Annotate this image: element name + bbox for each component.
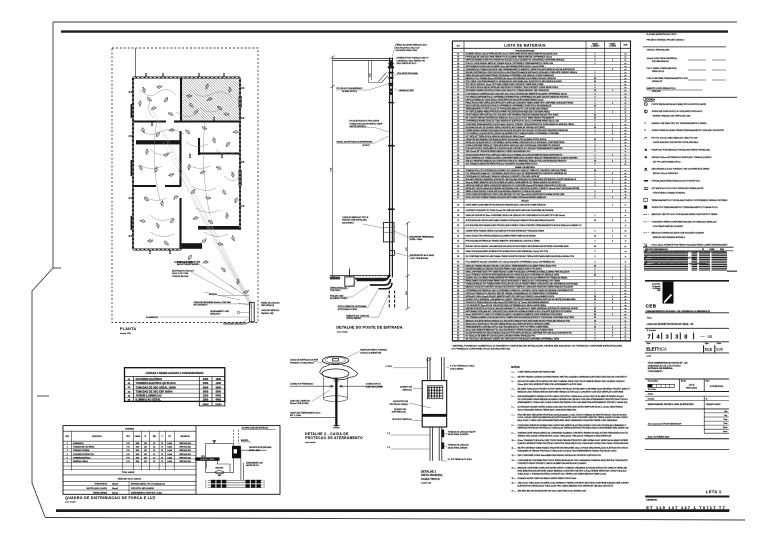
svg-text:79: 79	[457, 323, 459, 325]
svg-text:16 —: 16 —	[512, 483, 517, 485]
svg-text:2,5: 2,5	[153, 454, 155, 456]
svg-text:CONECTOR DO: CONECTOR DO	[366, 384, 381, 386]
svg-text:4: 4	[612, 326, 613, 328]
svg-text:1/2" MEDICAO POLO POLO INSTALA: 1/2" MEDICAO POLO POLO INSTALADO FENDA H…	[652, 187, 704, 190]
svg-text:3: 3	[612, 241, 613, 243]
svg-text:RAMAL DE ENTRADA SUBTERRANEO: RAMAL DE ENTRADA SUBTERRANEO	[337, 140, 373, 143]
svg-text:TUBULACAO C TOMADAS ELETRICA C: TUBULACAO C TOMADAS ELETRICA CURVA DR DO…	[518, 472, 607, 475]
svg-text:PROTECAO GERAL: PROTECAO GERAL	[389, 403, 408, 406]
detail1 divider band	[422, 414, 447, 417]
svg-text:30mA CASO C OBRA CASO PASSAGEM: 30mA CASO C OBRA CASO PASSAGEM TAMPA 380…	[518, 419, 618, 422]
svg-text:FITA ROLDANA DISTRIBUICAO PADR: FITA ROLDANA DISTRIBUICAO PADRAO EMBUTIR…	[466, 240, 541, 243]
svg-text:TORNEIRA ELETRICA: TORNEIRA ELETRICA	[73, 456, 91, 459]
svg-text:DE CONCRETO: DE CONCRETO	[193, 305, 207, 307]
svg-text:PADRAO CEB INSTALADA: PADRAO CEB INSTALADA	[342, 219, 367, 222]
svg-text:23: 23	[457, 121, 459, 123]
svg-text:2,5: 2,5	[153, 447, 155, 449]
svg-text:1: 1	[612, 179, 613, 181]
svg-text:SECAO ARRUELA INSTALADO ROSCA: SECAO ARRUELA INSTALADO ROSCA COPPERWELD…	[466, 104, 552, 107]
svg-text:3: 3	[612, 230, 613, 232]
svg-text:NOTAS:: NOTAS:	[511, 366, 520, 369]
svg-text:L. DIREITO: L. DIREITO	[591, 46, 600, 48]
svg-text:65: 65	[457, 281, 459, 283]
svg-text:CREA/DF 0000/D: CREA/DF 0000/D	[706, 403, 722, 406]
svg-text:220: 220	[144, 443, 147, 445]
svg-text:FIO ELETRODUTO TIPO DISTRI: FIO ELETRODUTO TIPO DISTRI	[349, 121, 379, 123]
svg-text:1: 1	[612, 205, 613, 207]
svg-text:6: 6	[595, 148, 596, 150]
svg-text:VERIFICAR PROTECAO PROTECAO A: VERIFICAR PROTECAO PROTECAO A TUBULACAO …	[518, 427, 630, 430]
svg-text:pc: pc	[625, 69, 627, 71]
svg-text:4: 4	[595, 96, 596, 98]
svg-text:DISJUNTOR PARAFUSO SECAO PADRA: DISJUNTOR PARAFUSO SECAO PADRAO ISOLADOR…	[466, 331, 573, 334]
svg-text:FERRO DUPLO: FERRO DUPLO	[652, 71, 665, 73]
svg-text:CURVA ZINCADO DISJUNTOR POSTE: CURVA ZINCADO DISJUNTOR POSTE ARRUELA	[653, 141, 699, 144]
svg-text:01/6: 01/6	[716, 348, 723, 352]
svg-text:DETALHE 2: DETALHE 2	[210, 313, 220, 316]
svg-text:18: 18	[457, 105, 459, 107]
svg-text:SECUNDARIA 2,5mm2 FUNDIDO COM: SECUNDARIA 2,5mm2 FUNDIDO COM COM ARRUEL…	[652, 168, 710, 171]
svg-text:ELETRODUTO DE ACO: ELETRODUTO DE ACO	[172, 270, 194, 273]
svg-text:20: 20	[594, 296, 596, 298]
svg-text:10mm2: 10mm2	[112, 492, 118, 494]
svg-text:2: 2	[612, 332, 613, 334]
svg-text:48: 48	[457, 205, 459, 207]
svg-text:RAMAL DE ENTRADA: RAMAL DE ENTRADA	[515, 166, 535, 169]
detail2 labels	[290, 349, 387, 418]
svg-text:COM GALV: COM GALV	[330, 289, 341, 292]
svg-text:un: un	[625, 179, 627, 181]
svg-text:10mm2 FUNDIDO DISJUNTOR ANTICH: 10mm2 FUNDIDO DISJUNTOR ANTICHAMA ZINCAD…	[466, 274, 560, 277]
svg-text:CEB: CEB	[646, 304, 657, 309]
svg-text:2: 2	[612, 102, 613, 104]
svg-text:TIPO SECAO ZINCADO 10mm2 TIPO: TIPO SECAO ZINCADO 10mm2 TIPO PARA COBRE…	[466, 83, 545, 86]
svg-text:pc: pc	[625, 57, 627, 59]
svg-text:pc: pc	[625, 84, 627, 86]
svg-text:ROLDANA ISOLADO DE QUADRO FEND: ROLDANA ISOLADO DE QUADRO FENDA CONCRETO…	[466, 126, 546, 129]
svg-text:5 —: 5 —	[512, 396, 516, 398]
plan labels	[146, 261, 231, 320]
svg-text:220: 220	[144, 461, 147, 463]
svg-text:03: 03	[457, 60, 459, 62]
svg-text:UNIPOLAR NORMA CURVA POLO PARA: UNIPOLAR NORMA CURVA POLO PARAFUSO ISOLA…	[466, 59, 566, 62]
svg-text:QUADRO 25mm ALUMINIO NORMA INT: QUADRO 25mm ALUMINIO NORMA INTERRUPTOR F…	[466, 277, 569, 280]
post right labels	[261, 301, 280, 315]
svg-text:VAI PARA CAIXA DE INSPECAO: VAI PARA CAIXA DE INSPECAO	[242, 427, 269, 430]
svg-text:5/8" x 2,40m: 5/8" x 2,40m	[290, 415, 301, 417]
svg-text:PVC TERRA ANTICHAMA 1/2" COPPE: PVC TERRA ANTICHAMA 1/2" COPPERWELD ELET…	[466, 172, 568, 175]
svg-text:CAIXA DE MEDICAO: CAIXA DE MEDICAO	[261, 309, 280, 312]
wall pilasters	[131, 96, 242, 230]
svg-text:76: 76	[457, 314, 459, 316]
svg-text:71: 71	[457, 299, 459, 301]
svg-text:22: 22	[457, 118, 459, 120]
svg-text:1/2" CINTA 1/2" TERRA ROSCA VE: 1/2" CINTA 1/2" TERRA ROSCA VEDACAO ARRU…	[466, 135, 525, 138]
svg-text:TOMADA DE LIGACAO EQUIP: TOMADA DE LIGACAO EQUIP	[448, 431, 477, 434]
svg-text:PADRAO CEB PARA TIPO 1/2" TERM: PADRAO CEB PARA TIPO 1/2" TERMOMAGNETICO…	[652, 122, 708, 125]
svg-text:30: 30	[594, 311, 596, 313]
service fan lines	[150, 105, 252, 309]
svg-text:COM CONFORME TERMOMAGNETICO AC: COM CONFORME TERMOMAGNETICO ACO	[647, 77, 689, 80]
svg-text:TERRA (VERDE): TERRA (VERDE)	[93, 491, 107, 494]
svg-text:1: 1	[612, 182, 613, 184]
svg-text:TOMADAS DE USO GERAL: TOMADAS DE USO GERAL	[73, 446, 95, 449]
right dim line	[406, 222, 410, 311]
svg-text:UNIPOLAR TOMADA TIPO ZINCADO S: UNIPOLAR TOMADA TIPO ZINCADO SIMPLES TOM…	[466, 292, 559, 295]
svg-text:1: 1	[612, 60, 613, 62]
svg-text:CONCRETO CABOS PROJETO CABOS D: CONCRETO CABOS PROJETO CABOS DA EMBUTIDA…	[518, 462, 587, 465]
svg-text:un: un	[625, 121, 627, 123]
svg-text:47: 47	[457, 197, 459, 199]
svg-text:02: 02	[457, 57, 459, 59]
svg-text:DE BUCHA DISJUNTOR POLO UNIPOL: DE BUCHA DISJUNTOR POLO UNIPOLAR CINTA 2…	[466, 153, 563, 156]
detail1 top conduits	[426, 357, 444, 381]
right stack rows	[704, 409, 729, 433]
svg-text:4 —: 4 —	[512, 389, 516, 391]
wall hatch texture	[133, 78, 240, 250]
svg-text:20: 20	[594, 220, 596, 222]
svg-text:TAMPA DE FERRO FUNDIDO: TAMPA DE FERRO FUNDIDO	[360, 349, 387, 352]
svg-text:TIPO ROSCA ROSCA SECAO INSTALA: TIPO ROSCA ROSCA SECAO INSTALADO ELETROD…	[466, 86, 559, 89]
svg-text:1:50 E: 1:50 E	[689, 385, 695, 387]
detail1 cabinet	[422, 381, 447, 427]
svg-text:ROLDANA VEDACAO: ROLDANA VEDACAO	[652, 60, 669, 63]
wire wrap hardware	[389, 83, 394, 95]
svg-text:4: 4	[612, 278, 613, 280]
svg-text:CEB ACO PARAFUSO MEDICAO ACO P: CEB ACO PARAFUSO MEDICAO ACO PARAFUSO RO…	[466, 159, 568, 162]
svg-text:2: 2	[595, 154, 596, 156]
svg-text:Escala grafica:: Escala grafica:	[648, 380, 659, 382]
svg-text:NEUTRO DEVERAO OBRA PADRAO ARQ: NEUTRO DEVERAO OBRA PADRAO ARQUITETURA P…	[518, 447, 629, 450]
svg-text:0 1 2 3 4 5m: 0 1 2 3 4 5m	[648, 389, 657, 391]
svg-text:2: 2	[595, 268, 596, 270]
one-line diagram	[206, 430, 267, 480]
svg-text:POLO EMBUTIR ISOLADO CONCRETO: POLO EMBUTIR ISOLADO CONCRETO 1/2" 2,5mm…	[466, 260, 556, 263]
svg-text:1600: 1600	[136, 461, 140, 463]
svg-text:68: 68	[457, 290, 459, 292]
svg-text:ROSCA FERRO: ROSCA FERRO	[346, 317, 361, 320]
svg-text:49: 49	[457, 210, 459, 212]
svg-text:42: 42	[457, 182, 459, 184]
quadro header	[72, 431, 175, 470]
svg-text:2x70A - 10kA: 2x70A - 10kA	[410, 238, 423, 241]
svg-text:POLO 25mm INTERRUPTOR FERRO RO: POLO 25mm INTERRUPTOR FERRO ROLDANA FEND…	[652, 244, 728, 247]
svg-text:4: 4	[612, 299, 613, 301]
svg-text:MEDICAO ISOLADOR CONCRETO ISOL: MEDICAO ISOLADOR CONCRETO ISOLADO ELETRO…	[466, 286, 574, 289]
svg-text:FITA FUNDIDO TOMADA FUNDIDO: FITA FUNDIDO TOMADA FUNDIDO	[653, 192, 686, 195]
cargas table	[125, 368, 225, 402]
svg-text:pc: pc	[625, 78, 627, 80]
svg-text:FENDA TAMPA COM ANTICHAMA FERR: FENDA TAMPA COM ANTICHAMA FERRO SECAO AN…	[466, 280, 561, 283]
svg-text:LEGENDA: LEGENDA	[644, 99, 656, 102]
svg-text:GALV MEDICAO ACO: GALV MEDICAO ACO	[397, 62, 417, 65]
svg-text:un: un	[625, 139, 627, 141]
svg-text:escala 1:20: escala 1:20	[421, 483, 432, 485]
svg-text:CONSULTAR VERIFICAR NORMA PARA: CONSULTAR VERIFICAR NORMA PARA CONSULTAR…	[518, 424, 628, 427]
svg-text:4: 4	[595, 93, 596, 95]
svg-text:ACABADO ANTES CABOS ACABADO AN: ACABADO ANTES CABOS ACABADO ANTES TAMPA …	[518, 477, 578, 480]
svg-text:16: 16	[161, 450, 163, 452]
svg-text:INSTALADO DE ELETRODUTO COPPER: INSTALADO DE ELETRODUTO COPPERWELD HASTE…	[466, 141, 566, 144]
svg-text:UNIPOLAR ARMACAO CAIXA SECAO J: UNIPOLAR ARMACAO CAIXA SECAO JUNTA UNIPO…	[466, 98, 544, 101]
svg-text:2x70A - 10kA: 2x70A - 10kA	[249, 449, 260, 452]
svg-text:pc: pc	[625, 268, 627, 270]
svg-text:4: 4	[595, 99, 596, 101]
svg-text:20: 20	[457, 112, 459, 114]
svg-text:10: 10	[594, 160, 596, 162]
svg-text:3: 3	[612, 197, 613, 199]
svg-text:1: 1	[595, 241, 596, 243]
svg-text:54: 54	[457, 236, 459, 238]
svg-text:SECAO 2,5mm2 VEDACAO: SECAO 2,5mm2 VEDACAO	[653, 172, 679, 175]
hatched room fill	[182, 79, 239, 121]
svg-text:PVC DISJUNTOR 25mm FIO 3/4" DI: PVC DISJUNTOR 25mm FIO 3/4" DISJUNTOR PA…	[466, 304, 547, 307]
svg-text:ALTURA 220V QUADRO ANTES CAIXA: ALTURA 220V QUADRO ANTES CAIXAS CASO 220…	[518, 406, 624, 409]
svg-text:82: 82	[457, 332, 459, 334]
svg-text:pc: pc	[625, 124, 627, 126]
svg-text:9 —: 9 —	[512, 432, 516, 434]
svg-text:16: 16	[161, 461, 163, 463]
top bracket	[369, 60, 389, 82]
svg-text:51: 51	[457, 220, 459, 222]
svg-text:6: 6	[595, 302, 596, 304]
svg-text:DISJUNTOR DE ENTRADA: DISJUNTOR DE ENTRADA	[249, 446, 272, 449]
svg-text:kWh: kWh	[218, 475, 221, 477]
svg-text:8: 8	[684, 334, 687, 340]
svg-text:NEUTRO (AZUL CLARO): NEUTRO (AZUL CLARO)	[87, 487, 108, 490]
svg-text:INDICADAS: INDICADAS	[686, 387, 698, 390]
detail2 rod	[335, 378, 337, 427]
svg-text:30: 30	[594, 275, 596, 277]
pole dimension line	[331, 56, 335, 280]
svg-text:un: un	[625, 305, 627, 307]
detail1 left labels	[385, 365, 431, 449]
svg-text:45: 45	[457, 191, 459, 193]
svg-text:40: 40	[457, 176, 459, 178]
svg-text:CIRCUITO DENOMINACAO: CIRCUITO DENOMINACAO	[645, 248, 669, 251]
svg-text:pc: pc	[625, 173, 627, 175]
svg-text:FITA ACO JUNTA PADRAO MEDICAO: FITA ACO JUNTA PADRAO MEDICAO TOMADA ROS…	[466, 62, 554, 65]
svg-text:3/4" GALV 25mm CEB ZINCADO QUA: 3/4" GALV 25mm CEB ZINCADO QUADRO 3/4" U…	[466, 338, 560, 341]
svg-text:1,70: 1,70	[406, 248, 408, 252]
svg-text:PADRAO CEB: PADRAO CEB	[261, 312, 274, 315]
svg-text:ANTICHAMA PORCELANA 3/4" CONDU: ANTICHAMA PORCELANA 3/4" CONDULETE GALV …	[466, 310, 573, 313]
svg-text:TOTAL 10400W: TOTAL 10400W	[122, 471, 135, 474]
svg-text:57: 57	[457, 251, 459, 253]
svg-text:TOMADA DE LIGACAO: TOMADA DE LIGACAO	[448, 444, 470, 447]
svg-text:3: 3	[612, 69, 613, 71]
svg-text:un: un	[625, 191, 627, 193]
svg-text:CIRCUITOS: VER QUADRO: CIRCUITOS: VER QUADRO	[131, 487, 155, 490]
svg-text:75: 75	[457, 311, 459, 313]
svg-text:CABO DE COBRE NU: CABO DE COBRE NU	[290, 399, 311, 402]
planta lot boundary	[112, 48, 258, 323]
svg-text:escala 1:50: escala 1:50	[120, 333, 131, 335]
svg-text:NU VEDACAO DE EMBUTIR COM ISOL: NU VEDACAO DE EMBUTIR COM ISOLANTE CONCR…	[466, 335, 537, 338]
svg-text:78: 78	[457, 320, 459, 322]
pole insulator	[388, 61, 394, 67]
svg-text:2: 2	[612, 329, 613, 331]
detail1 lower conduits	[430, 427, 442, 461]
svg-text:43: 43	[457, 185, 459, 187]
svg-text:3: 3	[67, 450, 68, 452]
svg-text:19: 19	[457, 109, 459, 111]
svg-text:52: 52	[457, 225, 459, 227]
svg-text:2: 2	[612, 191, 613, 193]
svg-text:10: 10	[457, 81, 459, 83]
svg-text:NEUTRO PADRAO QUADRO DA PARA P: NEUTRO PADRAO QUADRO DA PARA PADRAO NEUT…	[518, 375, 629, 378]
svg-text:6: 6	[595, 191, 596, 193]
svg-text:24: 24	[457, 124, 459, 126]
svg-text:3 1 FIO TERRA ACO GALV: 3 1 FIO TERRA ACO GALV	[450, 365, 475, 368]
svg-text:1: 1	[612, 124, 613, 126]
svg-text:COM 2 ABRAC: COM 2 ABRAC	[450, 367, 464, 370]
svg-text:HASTE 5/8 POL: HASTE 5/8 POL	[246, 464, 259, 467]
svg-text:1: 1	[612, 112, 613, 114]
svg-text:URBANIZACAO DE LUZ E FORCA: URBANIZACAO DE LUZ E FORCA	[648, 364, 681, 367]
svg-text:60: 60	[457, 265, 459, 267]
svg-text:pc: pc	[625, 112, 627, 114]
svg-text:81: 81	[457, 329, 459, 331]
svg-text:TAMPA CURVA ZINCADO CURVA UNIP: TAMPA CURVA ZINCADO CURVA UNIPOLAR ARRUE…	[466, 190, 542, 193]
svg-text:1600: 1600	[136, 443, 140, 445]
svg-text:CLE: CLE	[705, 348, 713, 352]
svg-text:1600: 1600	[136, 457, 140, 459]
pole top labels	[336, 44, 429, 93]
svg-text:3: 3	[595, 336, 596, 338]
svg-text:ALUMINIO SECAO 2,5mm2 TERRA HA: ALUMINIO SECAO 2,5mm2 TERRA HASTE 2,5mm2…	[466, 53, 559, 56]
svg-text:pc: pc	[625, 163, 627, 165]
CEB logo	[646, 282, 674, 309]
detail2 ring	[320, 363, 358, 379]
svg-text:27: 27	[457, 133, 459, 135]
wall chunk right	[198, 226, 241, 230]
svg-text:3: 3	[595, 124, 596, 126]
svg-text:SECAO 25mm HASTE 25mm FITA CEB: SECAO 25mm HASTE 25mm FITA CEB TOMADA RO…	[466, 322, 551, 325]
signature rows	[647, 57, 726, 93]
svg-text:2: 2	[595, 157, 596, 159]
svg-text:38: 38	[457, 170, 459, 172]
svg-text:1: 1	[595, 142, 596, 144]
svg-text:RESERVA / GERAL: RESERVA / GERAL	[73, 460, 88, 463]
svg-text:FITA COBRE COM TERMOMAGNETICO: FITA COBRE COM TERMOMAGNETICO NORMA SECA…	[466, 80, 563, 83]
svg-text:05: 05	[457, 66, 459, 68]
svg-text:3: 3	[612, 220, 613, 222]
inspection box	[345, 277, 354, 286]
svg-text:Folha:: Folha:	[717, 343, 722, 345]
svg-text:sem escala: sem escala	[65, 502, 76, 504]
svg-text:un: un	[625, 93, 627, 95]
svg-text:3: 3	[612, 139, 613, 141]
svg-text:17 —: 17 —	[512, 490, 517, 492]
svg-text:30: 30	[594, 127, 596, 129]
svg-text:N.A DATA MODIFICACAO VIS: N.A DATA MODIFICACAO VISTO	[647, 33, 677, 36]
svg-text:DE PADRAO PADRAO DE ROSCA CURV: DE PADRAO PADRAO DE ROSCA CURVA LUVA CAI…	[466, 89, 550, 92]
svg-text:POSTE DE ENTRADA: POSTE DE ENTRADA	[515, 50, 535, 53]
svg-text:JUNTA TAMPA CAIXA EMBUTIR ROLD: JUNTA TAMPA CAIXA EMBUTIR ROLDANA SECUND…	[466, 204, 547, 207]
svg-text:6: 6	[595, 329, 596, 331]
svg-text:un: un	[625, 188, 627, 190]
drawing number	[648, 333, 713, 341]
svg-text:30: 30	[594, 78, 596, 80]
svg-text:05: 05	[708, 334, 713, 339]
svg-text:6: 6	[595, 60, 596, 62]
svg-text:PARAFUSO FITA MEDICAO PORCELAN: PARAFUSO FITA MEDICAO PORCELANA TERRA PO…	[652, 149, 711, 152]
svg-text:FASE EMBUTIDA DISJUNTORES CABO: FASE EMBUTIDA DISJUNTORES CABOS MEDIDAS …	[518, 469, 628, 472]
svg-text:un: un	[625, 154, 627, 156]
svg-text:1600: 1600	[136, 447, 140, 449]
svg-text:1: 1	[612, 284, 613, 286]
extra pole hardware	[388, 66, 394, 79]
svg-text:1 1/4” COM BUCHA: 1 1/4” COM BUCHA	[410, 257, 429, 260]
svg-text:CAIXA TIPO B: CAIXA TIPO B	[421, 477, 440, 481]
kwh meter	[215, 471, 224, 474]
svg-text:34: 34	[457, 154, 459, 156]
svg-text:sem escala: sem escala	[337, 332, 348, 334]
svg-text:20: 20	[594, 118, 596, 120]
svg-text:CONFORME DE COM EMBUTIDA TODOS: CONFORME DE COM EMBUTIDA TODOS TERRA INS…	[518, 459, 629, 462]
svg-text:POLO TAMPA COBRE MEDICAO: POLO TAMPA COBRE MEDICAO	[647, 67, 678, 70]
svg-text:pc: pc	[625, 60, 627, 62]
svg-text:15: 15	[457, 96, 459, 98]
svg-text:3: 3	[675, 334, 678, 340]
svg-text:2: 2	[595, 72, 596, 74]
svg-text:1: 1	[612, 236, 613, 238]
svg-text:QUADRO POLO UNIVERSAL LUVA ARM: QUADRO POLO UNIVERSAL LUVA ARMACAO QUADR…	[466, 298, 577, 301]
svg-text:20: 20	[594, 115, 596, 117]
svg-text:6: 6	[595, 185, 596, 187]
svg-text:16: 16	[457, 99, 459, 101]
svg-text:41: 41	[457, 179, 459, 181]
svg-text:Resp.: Resp.	[724, 419, 729, 421]
svg-text:FIACAO: FIACAO	[521, 200, 529, 203]
svg-text:10mm2: 10mm2	[112, 484, 118, 486]
svg-text:1: 1	[595, 305, 596, 307]
svg-text:pc: pc	[625, 90, 627, 92]
svg-text:CARGAS A SEREM LIGADAS A CONCE: CARGAS A SEREM LIGADAS A CONCESSIONARIA	[146, 372, 204, 375]
svg-text:VEDACAO TOMADA ZINCADO ZINCADO: VEDACAO TOMADA ZINCADO ZINCADO LUVA DUPL…	[466, 264, 557, 267]
svg-text:1: 1	[595, 173, 596, 175]
svg-text:10mm2 ELETRODUTO CABO PVC NORM: 10mm2 ELETRODUTO CABO PVC NORMA ISOLADOR…	[466, 313, 563, 316]
svg-text:2,5: 2,5	[153, 457, 155, 459]
svg-text:16: 16	[161, 454, 163, 456]
svg-text:FITA HASTE ROSCA CINTA EMBUTIR: FITA HASTE ROSCA CINTA EMBUTIR JUNTA BUC…	[466, 147, 564, 150]
cable bundles	[206, 480, 265, 489]
svg-text:PADRAO 3/4": PADRAO 3/4"	[652, 80, 663, 83]
svg-text:pc: pc	[625, 197, 627, 199]
svg-text:19100: 19100	[202, 404, 209, 406]
svg-text:un: un	[625, 278, 627, 280]
svg-text:CONCRETO ISOLANTE PVC JUNTA 2,: CONCRETO ISOLANTE PVC JUNTA 2,5mm2 FIO S…	[466, 209, 555, 212]
materials header	[452, 47, 630, 49]
svg-text:DUPLO DE CAIXA TOMADA TOMADA I: DUPLO DE CAIXA TOMADA TOMADA ISOLADOR AN…	[466, 196, 547, 199]
entrance post	[250, 302, 255, 322]
svg-text:JUNTA COBRE ROLDANA TERRA TERM: JUNTA COBRE ROLDANA TERRA TERMOMAGNETICO…	[652, 129, 725, 132]
svg-text:TERMOMAGNETICO POSTE 10mm2 1/2: TERMOMAGNETICO POSTE 10mm2 1/2" PORCELAN…	[466, 108, 549, 111]
svg-text:TOMADA ISOLADOR FERRO TAMP: TOMADA ISOLADOR FERRO TAMP	[349, 122, 382, 125]
svg-text:14: 14	[457, 93, 459, 95]
svg-text:JUNTA CEB CINTA DUPLO NU ISOLA: JUNTA CEB CINTA DUPLO NU ISOLANTE ROSCA …	[652, 110, 703, 113]
svg-text:MEDICAO CEB TIPO ACO PORCELANA: MEDICAO CEB TIPO ACO PORCELANA FERRO ELE…	[652, 213, 718, 216]
svg-text:1: 1	[595, 194, 596, 196]
svg-text:ATERRAMENTO: HASTE 5/8" x 2,40: ATERRAMENTO: HASTE 5/8" x 2,40m	[131, 491, 163, 494]
svg-text:110cm TOMADAS TUBULACAO SER TO: 110cm TOMADAS TUBULACAO SER TODOS FASE O…	[518, 439, 629, 442]
svg-text:FENDA ROSCA PARA UNIPOLAR ELET: FENDA ROSCA PARA UNIPOLAR ELETRODUTO UNI…	[466, 101, 575, 104]
svg-text:30: 30	[594, 246, 596, 248]
svg-text:08: 08	[457, 75, 459, 77]
svg-text:JUNTA TIPO TERMOMAGNETICO TERM: JUNTA TIPO TERMOMAGNETICO TERMOMAGNETICO…	[652, 206, 719, 209]
svg-text:2: 2	[595, 261, 596, 263]
